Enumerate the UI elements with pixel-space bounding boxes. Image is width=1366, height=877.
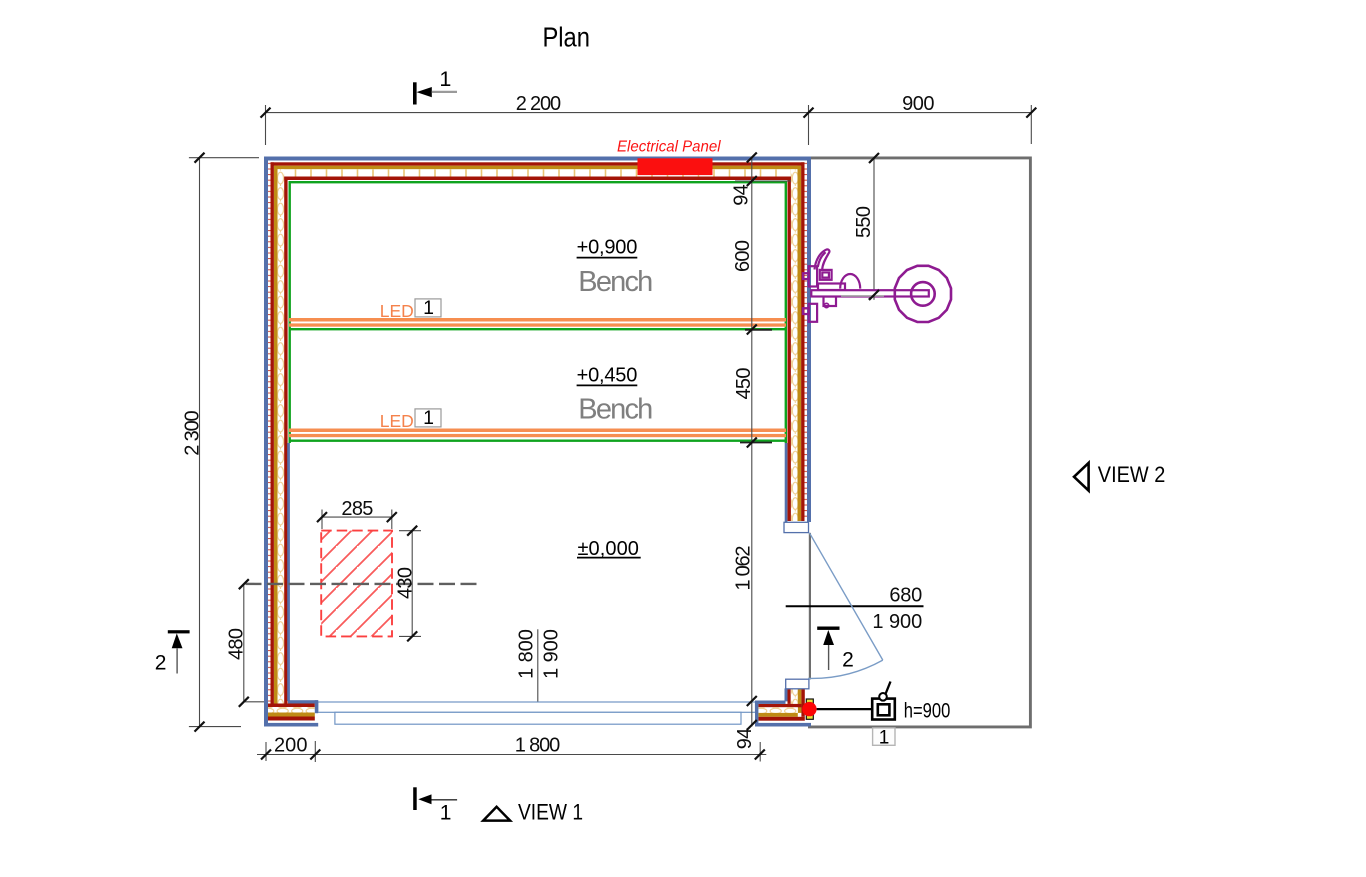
svg-text:Plan: Plan [542,21,590,52]
svg-text:600: 600 [732,240,754,272]
svg-text:+0,900: +0,900 [577,237,638,259]
svg-text:200: 200 [274,735,308,757]
svg-text:1 800: 1 800 [515,735,560,757]
svg-text:550: 550 [853,206,875,238]
svg-text:1: 1 [423,407,434,429]
svg-text:Electrical Panel: Electrical Panel [617,139,721,156]
svg-text:Bench: Bench [578,266,653,298]
svg-text:285: 285 [341,498,373,520]
svg-text:1 062: 1 062 [733,546,755,591]
svg-text:VIEW 1: VIEW 1 [518,800,583,825]
svg-text:Bench: Bench [578,394,653,426]
svg-text:LED: LED [380,301,414,321]
svg-text:1: 1 [879,728,890,749]
svg-text:2: 2 [842,648,854,671]
svg-text:430: 430 [394,567,416,599]
svg-text:+0,450: +0,450 [577,365,638,387]
svg-text:1 900: 1 900 [540,629,562,679]
svg-text:2 300: 2 300 [181,410,203,455]
svg-text:680: 680 [889,585,922,607]
svg-text:1: 1 [423,297,434,319]
svg-text:1 900: 1 900 [872,611,922,633]
svg-text:h=900: h=900 [904,700,951,723]
svg-text:94: 94 [734,728,756,750]
svg-text:450: 450 [733,368,755,400]
svg-text:±0,000: ±0,000 [578,538,639,560]
svg-text:480: 480 [225,628,247,660]
svg-text:2: 2 [155,652,167,675]
svg-text:900: 900 [902,93,934,115]
svg-text:1 800: 1 800 [515,629,537,679]
svg-text:94: 94 [731,184,753,206]
svg-text:VIEW 2: VIEW 2 [1098,462,1166,487]
svg-text:LED: LED [380,411,414,431]
svg-text:1: 1 [440,802,452,825]
svg-text:1: 1 [439,67,451,91]
svg-text:2 200: 2 200 [516,93,561,115]
